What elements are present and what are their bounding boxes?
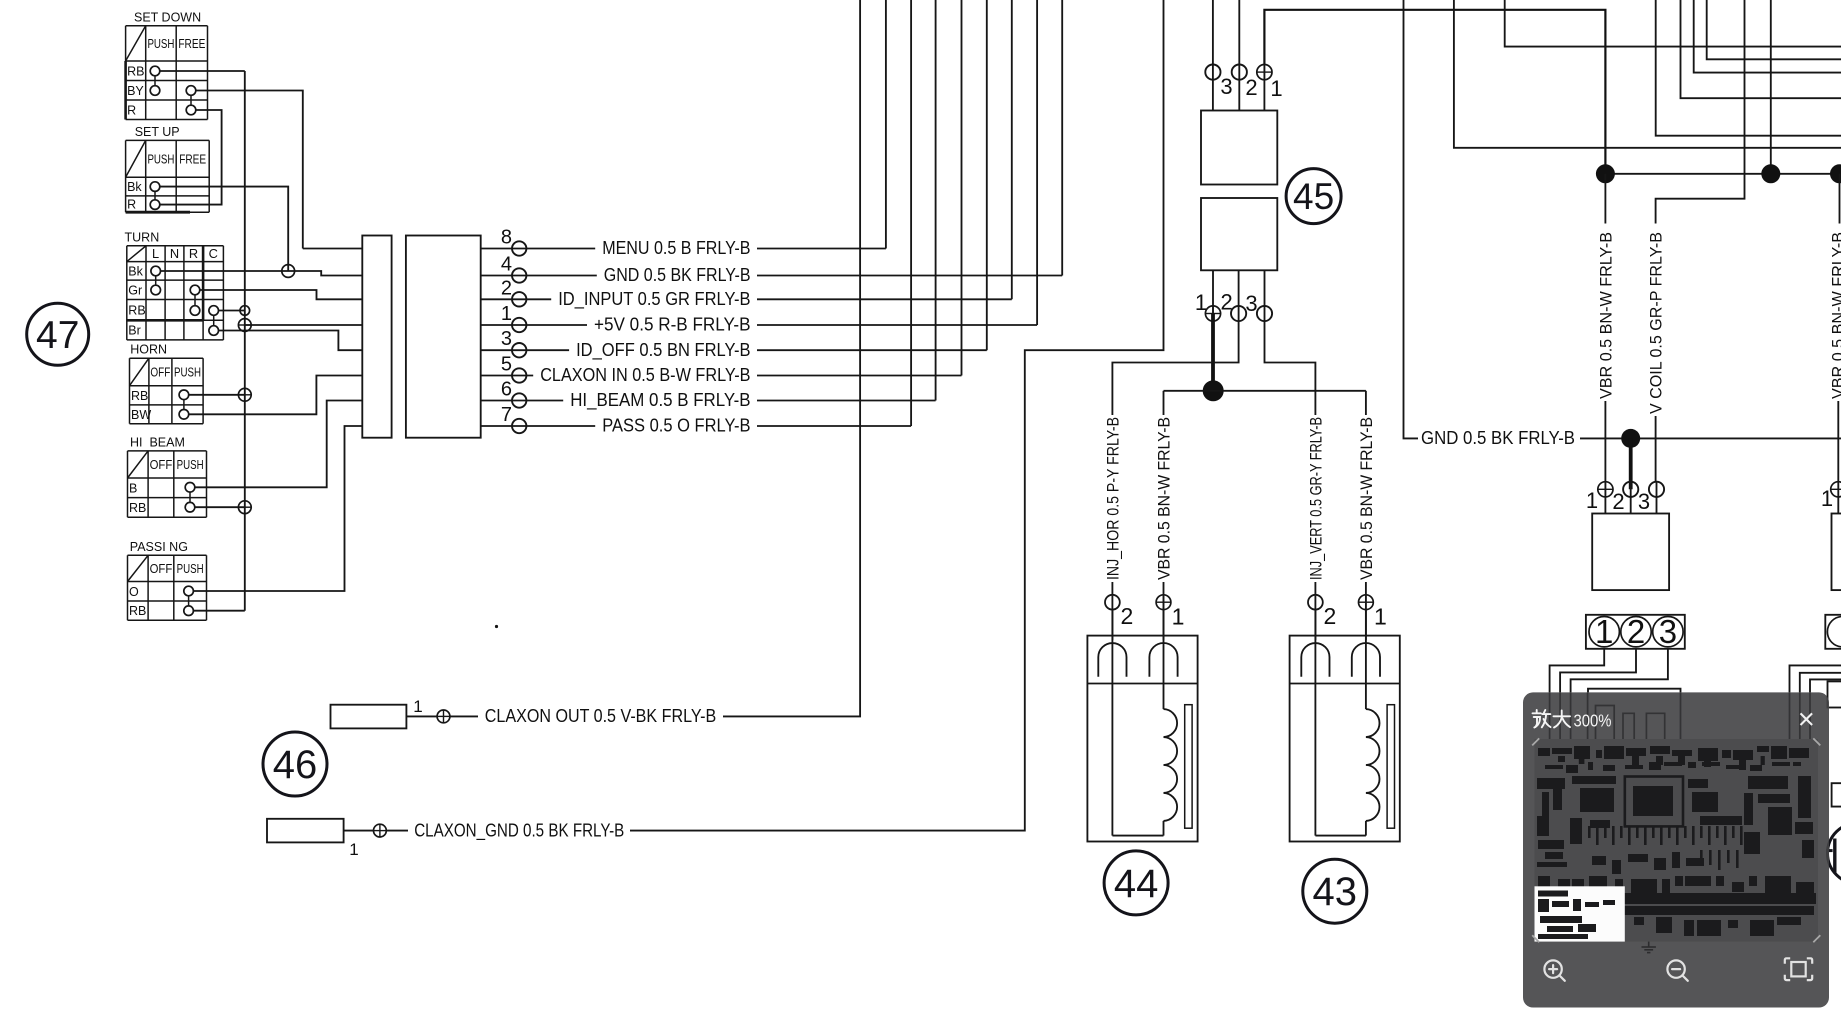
CLAXON_GND terminal: [267, 819, 344, 843]
connector label 46: [263, 732, 327, 796]
svg-text:2: 2: [1324, 603, 1337, 629]
wire top rail d: [1681, 0, 1841, 98]
svg-text:BW: BW: [131, 408, 151, 422]
wire SET DOWN RB to RB net: [160, 70, 245, 72]
svg-text:3: 3: [1638, 489, 1650, 514]
wire edge strip jog b: [1800, 673, 1841, 693]
svg-text:CLAXON OUT 0.5 V-BK FRLY-B: CLAXON OUT 0.5 V-BK FRLY-B: [485, 706, 716, 726]
svg-text:+5V 0.5 R-B FRLY-B: +5V 0.5 R-B FRLY-B: [594, 315, 751, 335]
fit screen icon: [1791, 962, 1805, 976]
zoom out icon: [1667, 960, 1684, 977]
splice CLAXON OUT: [437, 710, 450, 723]
edge component VBR lower: [1837, 401, 1839, 482]
svg-text:3: 3: [1659, 613, 1677, 650]
45 bottom pin 3: [1264, 270, 1266, 322]
svg-text:GND 0.5 BK FRLY-B: GND 0.5 BK FRLY-B: [604, 265, 751, 285]
wire edge strip jog c: [1810, 679, 1841, 692]
splice HI BEAM RB: [238, 501, 251, 514]
svg-text:RB: RB: [129, 604, 146, 618]
svg-text:43: 43: [1313, 870, 1358, 914]
wire SET DOWN R to SET UP R: [160, 110, 222, 205]
wire SET DOWN BY down: [196, 91, 303, 249]
wire TURN RB to RB net: [219, 310, 245, 312]
wire HORN RB to RB net: [189, 394, 245, 396]
wire HI BEAM RB to RB net: [195, 506, 245, 508]
svg-text:Br: Br: [128, 324, 141, 338]
svg-text:ID_INPUT 0.5 GR FRLY-B: ID_INPUT 0.5 GR FRLY-B: [558, 289, 750, 310]
wire CLAXON OUT net: [723, 0, 860, 716]
svg-text:RB: RB: [131, 389, 148, 403]
relay pin 3: [1649, 482, 1664, 497]
wire VBR 43 lower: [1365, 582, 1367, 596]
svg-text:1: 1: [1586, 488, 1598, 513]
svg-text:Gr: Gr: [128, 283, 142, 297]
45 bottom pin 2: [1238, 270, 1240, 322]
pin 1 +5V: [481, 324, 587, 326]
svg-text:PUSH: PUSH: [177, 561, 204, 576]
splice Bk net: [282, 265, 295, 278]
svg-text:1: 1: [1270, 76, 1282, 101]
svg-text:CLAXON IN 0.5 B-W FRLY-B: CLAXON IN 0.5 B-W FRLY-B: [540, 365, 750, 385]
svg-text:OFF: OFF: [150, 457, 173, 472]
wire 45 pin2 INJ_HOR: [1112, 322, 1238, 415]
wire top rail f: [1454, 0, 1841, 148]
wire V COIL feed: [1656, 0, 1745, 224]
svg-text:1: 1: [1172, 604, 1185, 630]
svg-text:BY: BY: [127, 84, 144, 98]
edge component box: [1832, 514, 1841, 591]
wire bridge: [1588, 689, 1681, 693]
connector label 41 (cut at edge): [1828, 823, 1841, 884]
svg-text:HORN: HORN: [130, 343, 167, 357]
splice CLAXON_GND: [374, 824, 387, 837]
svg-text:GND 0.5 BK FRLY-B: GND 0.5 BK FRLY-B: [1421, 428, 1575, 448]
wire top rail a: [1505, 0, 1841, 47]
wire strip 1 down: [1550, 649, 1605, 693]
svg-text:INJ_HOR 0.5 P-Y FRLY-B: INJ_HOR 0.5 P-Y FRLY-B: [1103, 417, 1122, 580]
junction dot VBR injectors: [1203, 380, 1224, 401]
junction dot VBR 2: [1761, 164, 1780, 183]
wire VBR rail to injectors: [1164, 390, 1366, 392]
45 bottom pin 1: [1212, 270, 1214, 322]
splice +5V takeoff: [238, 319, 251, 332]
wire CLAXON_GND to label: [386, 830, 408, 832]
wire INJ_HOR lower: [1111, 582, 1113, 596]
wire PASSING O to PASS pin: [193, 426, 362, 591]
wire RB net vertical (+5V common): [244, 71, 246, 611]
svg-text:C: C: [209, 246, 218, 261]
svg-text:L: L: [152, 246, 159, 261]
svg-text:2: 2: [1121, 603, 1134, 629]
relay connector strip: [1586, 615, 1685, 649]
zoom panel background and wires behind: [1523, 692, 1829, 1007]
svg-text:RB: RB: [129, 501, 146, 515]
svg-text:2: 2: [1627, 613, 1645, 650]
wire CLAXON_GND net: [630, 0, 1164, 831]
wire PASSING RB to RB net: [193, 610, 244, 612]
svg-text:7: 7: [501, 404, 512, 426]
svg-text:RB: RB: [128, 303, 145, 317]
svg-text:PUSH: PUSH: [177, 457, 204, 472]
edge component VBR wire: [1839, 174, 1841, 224]
wire HORN BW to CLAXON IN pin: [189, 376, 363, 415]
svg-text:44: 44: [1114, 862, 1159, 906]
wire GND dot to pin2: [1629, 438, 1633, 489]
svg-text:4: 4: [501, 254, 512, 276]
pin 4 GND: [481, 275, 597, 277]
svg-text:2: 2: [501, 277, 512, 299]
svg-text:2: 2: [1245, 75, 1257, 100]
svg-text:3: 3: [501, 328, 512, 350]
svg-text:HI BEAM: HI BEAM: [130, 435, 185, 449]
injector 43: [1314, 596, 1316, 640]
svg-text:CLAXON_GND 0.5 BK FRLY-B: CLAXON_GND 0.5 BK FRLY-B: [414, 820, 624, 841]
wire VBR right down: [1604, 174, 1606, 224]
relay box: [1592, 514, 1669, 591]
connector label 45: [1286, 169, 1341, 224]
wire strip 2 down: [1560, 649, 1636, 693]
svg-text:1: 1: [349, 840, 358, 859]
45 top pin 2: [1238, 0, 1240, 111]
svg-text:R: R: [189, 246, 198, 261]
svg-text:3: 3: [1245, 291, 1257, 316]
svg-text:47: 47: [36, 314, 79, 357]
wire VBR 44 upper: [1163, 391, 1165, 415]
wire 45 pin1 to VBR rail: [1264, 10, 1605, 174]
svg-text:1: 1: [1595, 613, 1613, 650]
wire BY entry: [303, 248, 363, 250]
relay pin 2: [1623, 482, 1638, 497]
edge component pin stub: [1837, 482, 1839, 513]
wire TURN Bk to GND pin: [161, 271, 363, 276]
junction dot VBR 1: [1596, 164, 1615, 183]
45 top pin 3: [1212, 0, 1214, 111]
svg-text:R: R: [127, 103, 136, 117]
connector block right half: [406, 236, 481, 438]
svg-text:RB: RB: [127, 64, 144, 78]
svg-text:PASS 0.5 O FRLY-B: PASS 0.5 O FRLY-B: [602, 416, 750, 436]
svg-text:O: O: [129, 585, 139, 599]
pin 5 CLAXON: [481, 375, 534, 377]
svg-text:300%: 300%: [1574, 710, 1612, 730]
wire 45 pin1 to injector dot: [1211, 314, 1215, 391]
zoom panel title 放大300%: [1533, 710, 1571, 728]
junction dot VBR 3: [1830, 164, 1841, 183]
wire V COIL lower: [1655, 416, 1657, 482]
svg-text:8: 8: [501, 227, 512, 249]
VBR dot rail: [1605, 173, 1841, 175]
wire RB net to +5V pin: [245, 324, 362, 326]
component 45 upper box: [1201, 111, 1277, 185]
svg-text:VBR 0.5 BN-W FRLY-B: VBR 0.5 BN-W FRLY-B: [1357, 417, 1376, 580]
zoom panel close button: [1801, 713, 1813, 725]
edge strip terminal: [1827, 617, 1841, 647]
strip terminal 2: [1621, 617, 1651, 647]
wire 45 pin3 INJ_VERT: [1265, 322, 1316, 415]
wire VBR 44 lower: [1163, 582, 1165, 596]
edge component pin 1: [1831, 482, 1841, 497]
svg-text:1: 1: [1821, 486, 1833, 511]
wire SET UP Bk: [160, 187, 288, 271]
relay pin stubs: [1604, 482, 1606, 513]
wire dot2 up: [1770, 0, 1772, 174]
splice HORN RB: [238, 388, 251, 401]
CLAXON OUT terminal: [331, 705, 407, 729]
pin 7 PASS: [481, 425, 596, 427]
svg-text:5: 5: [501, 354, 512, 376]
wire CLAXON OUT stub: [406, 715, 437, 717]
svg-text:PUSH: PUSH: [147, 36, 174, 51]
svg-text:TURN: TURN: [125, 230, 160, 244]
wire top rail c: [1694, 0, 1841, 73]
svg-text:FREE: FREE: [178, 36, 205, 51]
svg-text:PUSH: PUSH: [147, 151, 174, 166]
svg-text:1: 1: [413, 697, 422, 716]
edge terminal block: [1828, 681, 1841, 707]
wire edge strip jog a: [1790, 665, 1841, 692]
svg-text:3: 3: [1220, 74, 1232, 99]
svg-text:R: R: [127, 198, 136, 212]
svg-text:MENU 0.5 B FRLY-B: MENU 0.5 B FRLY-B: [602, 238, 750, 258]
strip terminal 3: [1653, 617, 1683, 647]
svg-text:VBR 0.5 BN-W FRLY-B: VBR 0.5 BN-W FRLY-B: [1154, 417, 1173, 580]
svg-text:Bk: Bk: [127, 180, 142, 194]
wire CLAXON OUT to label: [450, 715, 478, 717]
svg-text:PUSH: PUSH: [174, 364, 201, 379]
svg-text:B: B: [129, 481, 137, 495]
svg-text:SET UP: SET UP: [135, 125, 180, 139]
svg-text:N: N: [170, 246, 179, 261]
edge component bracket: [1832, 783, 1841, 806]
strip terminal 1: [1589, 617, 1619, 647]
svg-text:46: 46: [273, 743, 318, 787]
svg-text:FREE: FREE: [179, 151, 206, 166]
wire CLAXON_GND stub: [344, 830, 374, 832]
svg-text:PASSI NG: PASSI NG: [130, 540, 188, 554]
wire INJ_VERT lower: [1314, 582, 1316, 596]
wire TURN Gr to ID_INPUT pin: [200, 290, 362, 299]
svg-text:OFF: OFF: [150, 561, 173, 576]
connector label 47: [27, 303, 89, 365]
zoom in icon: [1544, 960, 1561, 977]
svg-text:OFF: OFF: [150, 364, 170, 379]
wire top rail b: [1707, 0, 1841, 59]
connector block left half: [362, 236, 391, 438]
injector 44: [1111, 596, 1113, 640]
wire VBR 43 upper: [1365, 391, 1367, 415]
pin 6 HI_BEAM: [481, 400, 564, 402]
wire HI BEAM B to HI_BEAM pin: [195, 401, 362, 488]
45 top pin 1: [1263, 65, 1265, 111]
svg-text:2: 2: [1220, 290, 1232, 315]
pin 2 ID_INPUT: [481, 298, 552, 300]
wire TURN Br to ID_OFF pin: [219, 331, 363, 351]
wire GND rail: [1580, 437, 1841, 439]
stray dot: [495, 625, 498, 628]
wire top rail e: [1656, 0, 1841, 136]
svg-text:INJ_VERT 0.5 GR-Y FRLY-B: INJ_VERT 0.5 GR-Y FRLY-B: [1306, 417, 1325, 580]
wire strip 3 down: [1571, 649, 1668, 693]
svg-text:45: 45: [1293, 176, 1334, 217]
wire GND from top: [1404, 0, 1419, 438]
zoom panel minimap: [1535, 739, 1819, 942]
junction dot GND: [1621, 429, 1640, 448]
svg-text:V COIL 0.5 GR-P FRLY-B: V COIL 0.5 GR-P FRLY-B: [1647, 232, 1666, 414]
relay pin 1: [1598, 482, 1613, 497]
svg-text:HI_BEAM 0.5 B FRLY-B: HI_BEAM 0.5 B FRLY-B: [570, 390, 750, 411]
svg-text:VBR 0.5 BN-W FRLY-B: VBR 0.5 BN-W FRLY-B: [1596, 232, 1615, 399]
svg-text:Bk: Bk: [128, 264, 143, 278]
pin 8 MENU: [481, 248, 596, 250]
svg-text:1: 1: [1374, 604, 1387, 630]
edge connector strip: [1825, 615, 1841, 649]
svg-text:1: 1: [1195, 290, 1207, 315]
svg-text:SET DOWN: SET DOWN: [134, 10, 201, 24]
svg-text:2: 2: [1612, 489, 1624, 514]
splice TURN RB: [240, 306, 250, 316]
svg-text:ID_OFF 0.5 BN FRLY-B: ID_OFF 0.5 BN FRLY-B: [576, 340, 750, 361]
svg-text:6: 6: [501, 379, 512, 401]
svg-text:VBR 0.5 BN-W FRLY-B: VBR 0.5 BN-W FRLY-B: [1829, 232, 1841, 399]
component 45 lower box: [1201, 198, 1277, 270]
wire VBR right lower: [1604, 401, 1606, 482]
svg-text:1: 1: [501, 303, 512, 325]
pin 3 ID_OFF: [481, 349, 569, 351]
